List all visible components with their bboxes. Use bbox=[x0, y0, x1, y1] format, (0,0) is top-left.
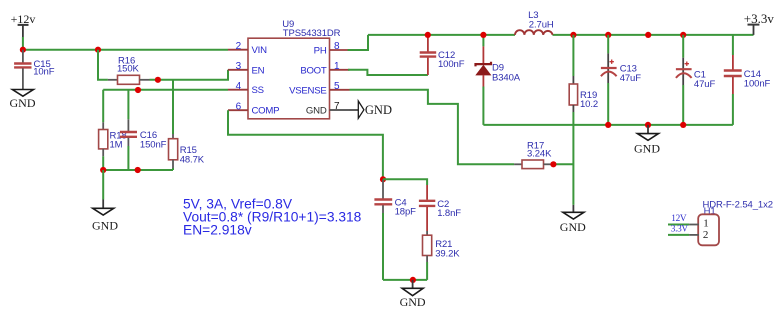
svg-text:18pF: 18pF bbox=[395, 207, 417, 218]
wire lower GND bus left bbox=[103, 169, 173, 171]
power +12v bbox=[11, 12, 36, 50]
svg-text:GND: GND bbox=[10, 96, 36, 110]
wire R17 to GND column bbox=[552, 163, 574, 165]
svg-text:PH: PH bbox=[314, 46, 327, 57]
ground below bottom rail bbox=[634, 125, 660, 156]
ground below R17 column bbox=[560, 205, 586, 234]
junction comp GND bbox=[410, 277, 416, 283]
resistor R15 bbox=[169, 80, 205, 170]
svg-text:7: 7 bbox=[334, 101, 340, 112]
junction at R16 drop bbox=[95, 47, 101, 53]
capacitor C4 bbox=[374, 179, 416, 280]
svg-text:10nF: 10nF bbox=[33, 67, 55, 78]
note text bbox=[183, 197, 362, 238]
svg-text:EN=2.918v: EN=2.918v bbox=[183, 223, 252, 238]
capacitor C12 bbox=[420, 35, 465, 75]
resistor R16 bbox=[108, 55, 150, 84]
junction top rail at R19 bbox=[570, 32, 576, 38]
svg-text:1: 1 bbox=[334, 61, 340, 72]
svg-text:1: 1 bbox=[703, 217, 709, 229]
wire EN net bbox=[150, 70, 229, 80]
svg-text:COMP: COMP bbox=[252, 106, 280, 117]
svg-text:2: 2 bbox=[236, 41, 242, 52]
svg-text:GND: GND bbox=[306, 106, 327, 117]
wire R16 drop bbox=[98, 50, 108, 80]
svg-text:GND: GND bbox=[634, 142, 660, 156]
svg-text:47uF: 47uF bbox=[620, 73, 642, 84]
wire PH to top rail bbox=[348, 35, 368, 50]
pin 5 VSENSE bbox=[289, 81, 349, 96]
GND flag at pin 7 bbox=[350, 101, 392, 118]
wire 3.3V stub bbox=[668, 234, 689, 236]
resistor R19 bbox=[569, 35, 598, 112]
svg-text:GND: GND bbox=[92, 219, 118, 233]
svg-text:GND: GND bbox=[400, 295, 426, 309]
junction on GND bus bbox=[135, 167, 141, 173]
node 12V label bbox=[671, 214, 687, 224]
ground below comp network bbox=[400, 280, 426, 309]
capacitor C13 polarized bbox=[601, 35, 641, 125]
svg-text:4: 4 bbox=[236, 81, 242, 92]
svg-text:2.7uH: 2.7uH bbox=[529, 20, 554, 31]
junction bottom rail at C13 bbox=[605, 122, 611, 128]
pin 3 EN bbox=[228, 61, 265, 76]
svg-text:2: 2 bbox=[703, 229, 709, 241]
svg-text:GND: GND bbox=[365, 103, 392, 117]
junction at C15 bbox=[20, 47, 26, 53]
IC U9 TPS54331DR bbox=[248, 19, 341, 119]
svg-text:SS: SS bbox=[252, 85, 264, 96]
capacitor C16 bbox=[120, 90, 167, 170]
svg-text:B340A: B340A bbox=[492, 73, 521, 84]
ground below C15 bbox=[10, 90, 36, 111]
svg-text:100nF: 100nF bbox=[744, 79, 771, 90]
svg-text:47uF: 47uF bbox=[694, 79, 716, 90]
wire VSENSE net bbox=[350, 90, 515, 165]
pin 2 VIN bbox=[228, 41, 267, 56]
junction top rail at C12 bbox=[425, 32, 431, 38]
junction top rail mid bbox=[645, 32, 651, 38]
svg-text:8: 8 bbox=[334, 41, 340, 52]
svg-text:150K: 150K bbox=[117, 63, 140, 74]
junction top rail at C13 bbox=[605, 32, 611, 38]
svg-text:TPS54331DR: TPS54331DR bbox=[283, 28, 341, 39]
wire R19 to GND column bbox=[572, 112, 574, 205]
diode D9 B340A bbox=[476, 35, 521, 125]
svg-text:BOOT: BOOT bbox=[300, 65, 327, 76]
wire top rail bbox=[368, 34, 515, 36]
junction COMP node bbox=[380, 176, 386, 182]
wire 12V stub bbox=[668, 224, 689, 226]
junction top rail at C1 bbox=[680, 32, 686, 38]
node 3.3V label bbox=[671, 225, 689, 235]
junction top rail at D9 bbox=[480, 32, 486, 38]
power +3.3v bbox=[744, 11, 775, 35]
wire SS net bbox=[103, 89, 228, 91]
wire +12v rail bbox=[23, 49, 228, 51]
pin 1 BOOT bbox=[300, 61, 349, 76]
wire COMP net bbox=[228, 110, 383, 179]
svg-text:10.2: 10.2 bbox=[580, 99, 598, 110]
svg-text:1.8nF: 1.8nF bbox=[437, 208, 461, 219]
junction EN net bbox=[155, 77, 161, 83]
wire comp GND bus bbox=[383, 279, 427, 281]
wire bottom GND rail bbox=[483, 124, 733, 126]
wire BOOT net bbox=[348, 70, 428, 75]
svg-text:VIN: VIN bbox=[252, 45, 268, 56]
svg-text:12V: 12V bbox=[671, 214, 687, 224]
svg-text:EN: EN bbox=[252, 65, 265, 76]
pin 7 GND bbox=[306, 101, 350, 116]
junction at R17 right bbox=[550, 161, 556, 167]
svg-text:3.24K: 3.24K bbox=[527, 149, 552, 160]
svg-text:GND: GND bbox=[560, 220, 586, 234]
wire C2 branch bbox=[383, 179, 427, 185]
capacitor C2 bbox=[419, 185, 461, 231]
svg-text:150nF: 150nF bbox=[140, 139, 167, 150]
svg-text:39.2K: 39.2K bbox=[435, 249, 460, 260]
pin 6 COMP bbox=[228, 101, 279, 116]
svg-text:3.3V: 3.3V bbox=[671, 225, 689, 235]
svg-text:3: 3 bbox=[236, 61, 242, 72]
resistor R21 bbox=[423, 231, 461, 280]
resistor R17 bbox=[514, 141, 552, 169]
svg-text:5: 5 bbox=[334, 81, 340, 92]
ground below R18 bbox=[92, 170, 118, 233]
pin 8 PH bbox=[314, 41, 350, 56]
junction bottom rail at GND bbox=[645, 122, 651, 128]
junction bottom rail at C1 bbox=[680, 122, 686, 128]
capacitor C1 polarized bbox=[676, 35, 716, 125]
svg-text:6: 6 bbox=[236, 101, 242, 112]
svg-text:VSENSE: VSENSE bbox=[289, 85, 326, 96]
svg-text:100nF: 100nF bbox=[438, 59, 465, 70]
pin 4 SS bbox=[228, 81, 264, 96]
capacitor C15 bbox=[14, 50, 55, 90]
junction at R18 bottom bbox=[100, 167, 106, 173]
svg-text:48.7K: 48.7K bbox=[180, 154, 205, 165]
svg-text:1M: 1M bbox=[110, 139, 123, 150]
capacitor C14 bbox=[724, 35, 771, 125]
junction SS net bbox=[135, 87, 141, 93]
resistor R18 bbox=[99, 90, 127, 170]
wire top rail right of L3 bbox=[553, 34, 754, 36]
connector H1 HDR-F-2.54_1x2 bbox=[689, 199, 773, 245]
inductor L3 bbox=[515, 10, 554, 35]
